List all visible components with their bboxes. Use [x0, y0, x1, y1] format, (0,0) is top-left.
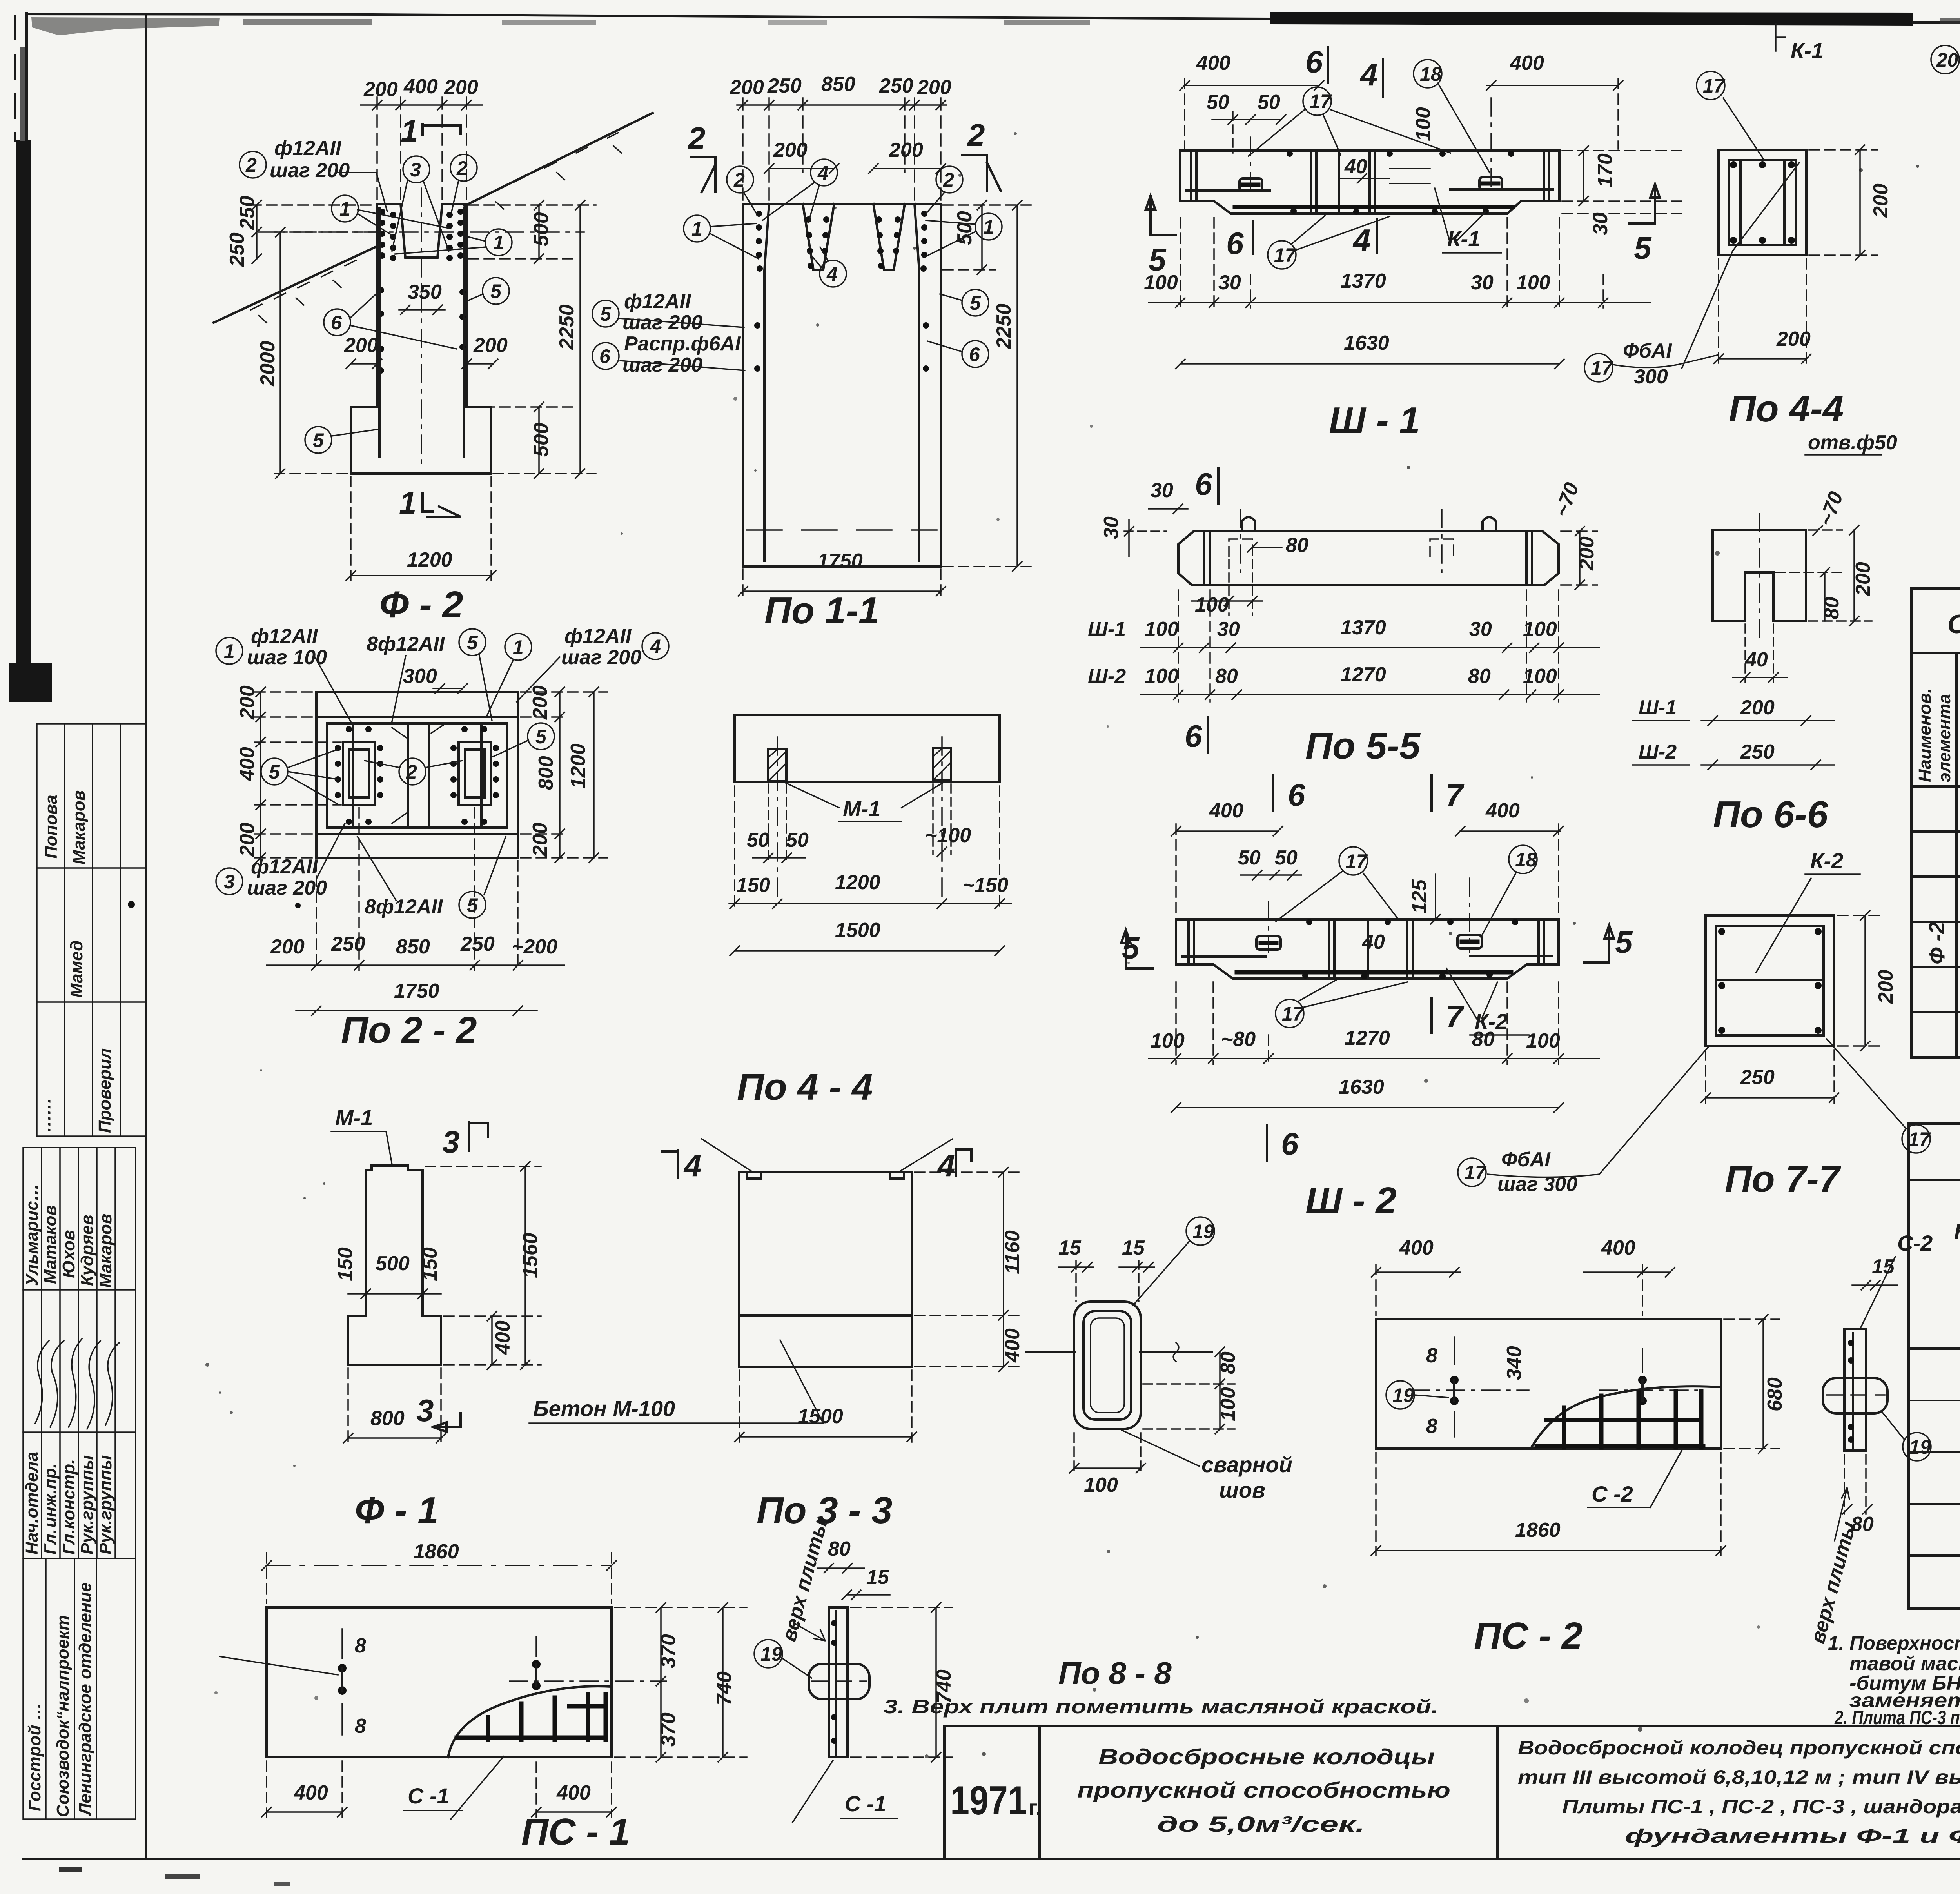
section view По 4-4 (slab with M-1 inserts) — [729, 715, 1011, 1108]
svg-text:5: 5 — [535, 726, 547, 748]
svg-text:тавой мастики 10мм. следующего: тавой мастики 10мм. следующего состава: … — [1849, 1652, 1960, 1674]
horizontal centerline at slot — [259, 231, 584, 233]
svg-text:15: 15 — [1872, 1255, 1895, 1278]
svg-text:Ф -2: Ф -2 — [1924, 922, 1949, 964]
section view По 3-3 (foundation block) — [529, 1139, 1024, 1531]
svg-text:200: 200 — [1575, 536, 1598, 571]
svg-text:50: 50 — [1238, 846, 1261, 869]
foundation Ф-1 side view — [331, 1105, 542, 1531]
section mark 2 left — [687, 121, 715, 192]
section arrow 5 right — [1629, 184, 1660, 223]
stamp lower: signatures column (rotated squiggles) — [35, 1339, 119, 1429]
pin centerlines — [1268, 902, 1269, 953]
svg-text:шаг 200: шаг 200 — [270, 159, 350, 182]
callout 1 right — [975, 213, 1002, 240]
callout 19 (partial at left) — [220, 1656, 338, 1675]
sheet outer edge line left — [14, 16, 16, 141]
svg-text:~80: ~80 — [1221, 1028, 1256, 1051]
sheet frame left vertical upper — [25, 13, 28, 149]
dim 200 wall left — [344, 334, 382, 369]
svg-text:Ленинградское отделение: Ленинградское отделение — [76, 1582, 95, 1816]
callout 2 with ф12АII шаг 200 — [240, 137, 387, 212]
svg-text:С -2: С -2 — [1592, 1482, 1633, 1506]
rebar cage rect — [327, 723, 507, 828]
sheet frame left vertical — [145, 16, 147, 1859]
inner band lines — [316, 716, 518, 718]
scanner black bar left edge — [16, 140, 31, 685]
callout 4 top — [811, 159, 837, 186]
svg-text:Ш-2: Ш-2 — [1088, 665, 1126, 688]
outline — [348, 1166, 441, 1365]
svg-text:2000: 2000 — [256, 341, 279, 387]
svg-text:500: 500 — [376, 1252, 410, 1275]
svg-text:50: 50 — [786, 829, 809, 852]
callout 18 — [1509, 845, 1537, 873]
tube inner — [1083, 1311, 1131, 1420]
svg-text:С -1: С -1 — [408, 1783, 449, 1808]
lifting loops on top — [1242, 517, 1255, 531]
foundation Ф-2 section view — [214, 75, 653, 626]
rebar + dots — [835, 1611, 837, 1754]
svg-text:100: 100 — [1523, 618, 1557, 641]
callout 17 bottom — [1276, 999, 1304, 1028]
svg-text:200: 200 — [473, 334, 508, 357]
svg-text:6: 6 — [1226, 226, 1244, 261]
box outline — [743, 204, 941, 567]
svg-text:По 8 - 8: По 8 - 8 — [1058, 1656, 1172, 1691]
svg-text:30: 30 — [1100, 516, 1123, 539]
bottom dim 1630 — [1171, 1076, 1563, 1112]
svg-text:1200: 1200 — [567, 743, 590, 789]
right end double lines — [1543, 153, 1545, 199]
right dim 30 — [1562, 212, 1682, 235]
left dim 2000 — [256, 227, 349, 478]
svg-text:1: 1 — [224, 640, 235, 662]
top note 8ф12АII + callout 5 — [367, 629, 492, 721]
dash-dot pin lines — [1250, 137, 1251, 188]
svg-text:740: 740 — [713, 1671, 736, 1705]
svg-text:80: 80 — [1820, 597, 1843, 619]
mesh С-2 — [1537, 1391, 1703, 1447]
svg-text:125: 125 — [1408, 879, 1431, 913]
bottom dim 1750 — [296, 980, 537, 1015]
svg-text:200: 200 — [444, 76, 478, 99]
svg-text:5: 5 — [970, 292, 981, 314]
svg-text:3: 3 — [224, 871, 235, 893]
svg-text:1860: 1860 — [1515, 1519, 1561, 1542]
horizontal rebar — [1186, 189, 1270, 192]
svg-text:5: 5 — [1615, 924, 1633, 959]
svg-text:4: 4 — [817, 162, 829, 184]
svg-text:По 6-6: По 6-6 — [1713, 794, 1828, 835]
svg-text:6: 6 — [1195, 467, 1212, 501]
svg-text:2: 2 — [245, 154, 257, 176]
svg-text:8ф12АII: 8ф12АII — [365, 895, 443, 918]
pin 1 — [1454, 1337, 1455, 1364]
svg-text:Ш-1: Ш-1 — [1639, 696, 1677, 719]
centerline dashed — [1759, 514, 1760, 643]
svg-text:1160: 1160 — [1001, 1230, 1024, 1274]
stirrup frame — [1716, 926, 1824, 1035]
svg-text:400: 400 — [294, 1781, 328, 1804]
svg-text:2: 2 — [733, 169, 745, 191]
callout 5 right — [528, 723, 554, 750]
svg-text:1: 1 — [401, 114, 418, 149]
rebar line + dots — [1852, 1333, 1854, 1447]
svg-text:150: 150 — [334, 1247, 357, 1281]
notes Примечания — [884, 1611, 1960, 1729]
callout 19 — [1186, 1217, 1214, 1245]
svg-text:Макаров: Макаров — [96, 1214, 115, 1288]
svg-text:30: 30 — [1218, 271, 1241, 294]
svg-text:1: 1 — [691, 218, 702, 240]
svg-text:350: 350 — [408, 281, 442, 303]
svg-text:15: 15 — [1122, 1237, 1145, 1259]
svg-text:8: 8 — [1426, 1344, 1437, 1367]
svg-text:40: 40 — [1344, 155, 1367, 178]
svg-text:170: 170 — [1594, 153, 1617, 187]
svg-text:200: 200 — [529, 685, 552, 720]
wall rebar vertical bars — [378, 208, 381, 457]
svg-text:5: 5 — [1122, 930, 1140, 965]
svg-text:С -1: С -1 — [845, 1791, 886, 1816]
svg-text:фундаменты Ф-1 и Ф-2 .: фундаменты Ф-1 и Ф-2 . — [1625, 1825, 1960, 1847]
svg-text:200: 200 — [529, 823, 552, 857]
left dim 250/250 — [226, 196, 378, 267]
svg-text:Ш - 1: Ш - 1 — [1329, 400, 1420, 441]
svg-text:Гл.констр.: Гл.констр. — [59, 1459, 78, 1554]
left margin notes: callout 6 Распр.ф6АI шаг 200 — [592, 332, 745, 376]
svg-text:4: 4 — [1352, 223, 1371, 258]
svg-text:50: 50 — [1275, 846, 1298, 869]
svg-text:150: 150 — [736, 874, 770, 897]
svg-text:800: 800 — [370, 1407, 405, 1430]
hook diagonals — [392, 725, 443, 823]
callout 5 mid right — [465, 278, 509, 304]
torn curve — [1531, 1386, 1721, 1449]
section mark 3 bottom — [433, 1413, 461, 1432]
concrete rect — [1706, 915, 1834, 1046]
svg-text:6: 6 — [1305, 44, 1323, 79]
svg-text:400: 400 — [1209, 799, 1243, 822]
svg-text:сварной: сварной — [1201, 1452, 1292, 1477]
plate ПС-1 plan view — [220, 1517, 955, 1853]
right dim 2250 — [468, 200, 596, 478]
svg-text:80: 80 — [1468, 665, 1491, 688]
svg-text:200: 200 — [236, 685, 259, 720]
svg-text:200: 200 — [773, 139, 808, 162]
plate ПС-2 plan view — [1371, 1231, 1933, 1657]
rebar dots around slots — [335, 726, 499, 825]
block outline — [739, 1172, 912, 1367]
shandor Ш-1 elevation — [1144, 44, 1682, 441]
svg-text:8: 8 — [355, 1715, 366, 1738]
svg-text:шов: шов — [1219, 1478, 1265, 1502]
right dim 2250 — [943, 200, 1031, 571]
svg-text:200: 200 — [363, 78, 398, 101]
sheet frame top (skewed scan) — [27, 14, 1270, 19]
svg-text:100: 100 — [1526, 1030, 1560, 1052]
svg-text:По 2 - 2: По 2 - 2 — [341, 1009, 477, 1051]
top dims 200 250 850 250 200 — [730, 73, 951, 200]
svg-text:5: 5 — [467, 632, 478, 654]
callout 2 left — [727, 166, 753, 193]
face dots — [1302, 919, 1518, 979]
ground slope line left — [214, 244, 382, 323]
svg-text:тип III высотой 6,8,10,12 м ;: тип III высотой 6,8,10,12 м ; тип IV выс… — [1518, 1766, 1960, 1788]
left dims 200 400 200 — [236, 685, 341, 863]
svg-text:По 4-4: По 4-4 — [1729, 388, 1844, 430]
svg-text:100: 100 — [1145, 665, 1179, 688]
svg-text:400: 400 — [1485, 799, 1520, 822]
svg-text:8ф12АII: 8ф12АII — [367, 633, 445, 656]
rebar corner dots — [1730, 161, 1795, 244]
svg-text:2: 2 — [456, 157, 468, 179]
callout 2 right — [936, 166, 963, 193]
svg-text:30: 30 — [1589, 212, 1612, 235]
svg-text:1200: 1200 — [407, 548, 452, 571]
sheet frame top right part — [1913, 21, 1960, 24]
top right note ф12АII шаг 200 + callout 4 — [517, 625, 669, 702]
svg-text:~150: ~150 — [962, 874, 1008, 897]
svg-text:19: 19 — [1192, 1220, 1214, 1242]
svg-text:Распр.ф6АI: Распр.ф6АI — [624, 332, 741, 355]
svg-text:200: 200 — [1776, 328, 1811, 350]
beam outline — [1180, 151, 1559, 214]
callout 17 lower — [1268, 241, 1296, 269]
svg-text:500: 500 — [530, 423, 553, 457]
ground slope line right — [465, 113, 653, 206]
svg-text:500: 500 — [953, 211, 976, 245]
dims 150 500 150 — [334, 1247, 441, 1298]
svg-text:19: 19 — [1392, 1384, 1414, 1406]
bottom dim 1630 — [1176, 332, 1564, 369]
svg-text:5: 5 — [490, 280, 502, 302]
svg-text:Рук.группы: Рук.группы — [96, 1455, 115, 1554]
svg-text:500: 500 — [530, 212, 553, 246]
svg-text:50: 50 — [1258, 91, 1280, 114]
svg-text:18: 18 — [1420, 63, 1442, 85]
svg-text:680: 680 — [1764, 1377, 1786, 1411]
svg-text:1270: 1270 — [1345, 1027, 1390, 1050]
vertical cage lines — [352, 723, 354, 828]
bottom dim 200 — [1714, 259, 1811, 364]
pin 2 — [1638, 1376, 1647, 1384]
dim 400 top-left — [1180, 52, 1324, 149]
svg-text:ф12АII: ф12АII — [624, 290, 691, 313]
outline with bottom notch — [1713, 530, 1806, 621]
callout 5 bottom left — [305, 427, 378, 453]
hatched insert left — [768, 749, 786, 781]
section view По 7-7 (stirrup K-2) — [1701, 848, 1931, 1200]
svg-text:ф12АII: ф12АII — [251, 625, 318, 648]
arrow to верх плиты — [794, 1623, 825, 1641]
svg-text:По 4 - 4: По 4 - 4 — [737, 1066, 873, 1108]
plate outline — [267, 1607, 612, 1757]
svg-text:1. Поверхности шандор, соприка: 1. Поверхности шандор, соприкасающиеся м… — [1828, 1632, 1960, 1654]
slot box left — [343, 742, 375, 805]
rebar dots on faces — [1287, 151, 1514, 215]
svg-text:100: 100 — [1084, 1474, 1118, 1496]
svg-text:1: 1 — [493, 232, 504, 254]
svg-text:Макаров: Макаров — [69, 790, 89, 864]
svg-text:пропускной способностью: пропускной способностью — [1077, 1778, 1450, 1802]
svg-text:850: 850 — [821, 73, 855, 96]
svg-text:400: 400 — [1196, 52, 1230, 74]
svg-text:4: 4 — [937, 1148, 955, 1183]
svg-text:40: 40 — [1362, 931, 1385, 953]
bottom-left note ф12АII шаг 200 + callout 3 — [216, 823, 345, 899]
svg-text:Матаков: Матаков — [41, 1205, 60, 1284]
top dimension 200 400 200 — [361, 75, 482, 200]
svg-text:18: 18 — [1515, 849, 1537, 871]
svg-text:15: 15 — [1058, 1237, 1082, 1259]
svg-text:М-1: М-1 — [843, 796, 880, 821]
horizontal rebars — [1182, 955, 1266, 958]
svg-text:К-1: К-1 — [1447, 226, 1480, 251]
svg-text:отв.ф50: отв.ф50 — [1808, 431, 1897, 454]
callout 2 right — [450, 154, 477, 212]
right dim 200 — [1809, 145, 1892, 260]
callout 19 — [1386, 1381, 1414, 1409]
svg-text:шаг 200: шаг 200 — [622, 311, 702, 334]
stirrups K-1 — [1311, 153, 1375, 212]
svg-text:250: 250 — [767, 74, 802, 97]
table grid — [1911, 588, 1960, 1057]
callout 17 right — [1902, 1125, 1930, 1153]
sheet frame bottom — [24, 1858, 1960, 1860]
svg-text:6: 6 — [331, 312, 342, 334]
torn curve — [448, 1686, 612, 1757]
svg-text:шаг 200: шаг 200 — [561, 646, 641, 669]
section view По 2-2 (foundation plan) — [216, 625, 669, 1051]
svg-text:4: 4 — [826, 263, 838, 285]
paper specks — [205, 132, 1960, 1758]
svg-text:Рук.группы: Рук.группы — [78, 1455, 97, 1554]
Ф-2 concrete outline — [351, 204, 491, 474]
svg-text:1270: 1270 — [1341, 663, 1386, 686]
pin 2 — [532, 1660, 541, 1669]
svg-text:200: 200 — [1875, 970, 1897, 1004]
svg-text:Плиты ПС-1 , ПС-2 , ПС-3 ,: Плиты ПС-1 , ПС-2 , ПС-3 , шандора Ш-1 ,… — [1562, 1796, 1960, 1818]
callout 5 right — [962, 289, 989, 316]
svg-text:80: 80 — [828, 1538, 851, 1560]
svg-text:2250: 2250 — [993, 303, 1015, 349]
callout 6 left — [324, 291, 457, 349]
svg-text:По 1-1: По 1-1 — [764, 590, 879, 632]
heavy scan band top middle — [1270, 12, 1913, 26]
section arrow 5 left — [1146, 196, 1176, 235]
svg-text:6: 6 — [599, 345, 611, 367]
svg-text:200: 200 — [730, 76, 764, 99]
svg-text:5: 5 — [269, 761, 280, 783]
svg-text:8: 8 — [1426, 1415, 1437, 1438]
shandor Ш-2 elevation — [1121, 775, 1709, 1222]
svg-text:Бетон М-100: Бетон М-100 — [533, 1396, 675, 1421]
dim 200 wall right — [462, 334, 508, 369]
svg-text:1860: 1860 — [414, 1540, 459, 1563]
svg-text:200: 200 — [1852, 562, 1875, 596]
svg-text:Ф - 1: Ф - 1 — [355, 1489, 439, 1531]
callout 17 ФбАI шаг 300 — [1458, 1046, 1709, 1196]
svg-text:1971: 1971 — [950, 1778, 1027, 1823]
svg-text:300: 300 — [403, 665, 437, 688]
corner dots — [1718, 928, 1822, 1034]
svg-text:19: 19 — [1909, 1436, 1931, 1458]
end double lines — [1187, 921, 1190, 962]
concrete square — [1719, 150, 1806, 255]
ПС-1 side view (С-1) — [754, 1517, 955, 1822]
svg-text:80: 80 — [1286, 534, 1308, 557]
svg-text:шаг 200: шаг 200 — [247, 877, 327, 899]
svg-text:1: 1 — [339, 198, 350, 220]
partition trapezoid 2 — [873, 204, 905, 270]
svg-text:5: 5 — [1634, 231, 1652, 265]
svg-text:100: 100 — [1195, 594, 1229, 616]
svg-text:17: 17 — [1282, 1003, 1305, 1025]
plate ПС-3 plan view — [1931, 32, 1960, 569]
slot box right — [459, 742, 491, 805]
svg-text:3. Верх плит пометить масл: 3. Верх плит пометить масляной краской. — [884, 1696, 1438, 1718]
svg-text:17: 17 — [1274, 244, 1297, 266]
svg-text:К-1: К-1 — [1791, 38, 1824, 63]
callout 17 top with leaders — [1303, 87, 1331, 115]
callout 5 left — [261, 758, 288, 785]
scanner speckle streaks below top line — [31, 17, 220, 35]
svg-text:2: 2 — [406, 761, 417, 783]
anchor loops — [1256, 936, 1281, 950]
svg-text:300: 300 — [1634, 365, 1668, 388]
svg-text:400: 400 — [1001, 1328, 1024, 1363]
svg-text:400: 400 — [403, 75, 438, 98]
svg-text:1370: 1370 — [1341, 616, 1386, 639]
svg-text:Водосбросные колодцы: Водосбросные колодцы — [1098, 1744, 1435, 1769]
pin 1 — [341, 1629, 343, 1658]
callout 1 left — [332, 195, 449, 235]
svg-text:1: 1 — [399, 485, 417, 520]
tube outer — [1074, 1302, 1141, 1429]
svg-text:6: 6 — [969, 343, 980, 365]
svg-text:50: 50 — [747, 829, 769, 852]
svg-text:19: 19 — [760, 1643, 782, 1665]
svg-text:200: 200 — [889, 139, 923, 162]
svg-text:400: 400 — [492, 1320, 514, 1355]
svg-text:1750: 1750 — [817, 550, 863, 572]
svg-text:М-1: М-1 — [335, 1105, 373, 1130]
plate edges right with break — [1140, 1351, 1212, 1353]
svg-text:17: 17 — [1345, 850, 1368, 872]
section view По 4-4 (top right, stirrup K-1) — [1584, 24, 1897, 455]
specification table (Спецификация арматуры) — [1911, 588, 1960, 1057]
svg-text:250: 250 — [460, 933, 495, 955]
slab outline — [735, 715, 1000, 782]
svg-text:80: 80 — [1851, 1513, 1874, 1536]
svg-text:100: 100 — [1151, 1030, 1185, 1052]
svg-text:250: 250 — [879, 74, 913, 97]
svg-text:30: 30 — [1471, 271, 1494, 294]
svg-text:2: 2 — [943, 169, 954, 191]
bottom dims 100 ~80 1270 80 100 — [1149, 982, 1599, 1064]
loop tab — [1823, 1378, 1887, 1413]
diagonal leaders — [1723, 98, 1764, 160]
svg-text:400: 400 — [1399, 1237, 1434, 1259]
svg-text:Мамед: Мамед — [67, 941, 86, 998]
svg-text:По 7-7: По 7-7 — [1725, 1158, 1842, 1200]
callout 17 — [1339, 847, 1367, 875]
svg-text:1200: 1200 — [835, 871, 880, 894]
svg-text:200: 200 — [270, 935, 305, 958]
outer rect — [316, 692, 518, 858]
